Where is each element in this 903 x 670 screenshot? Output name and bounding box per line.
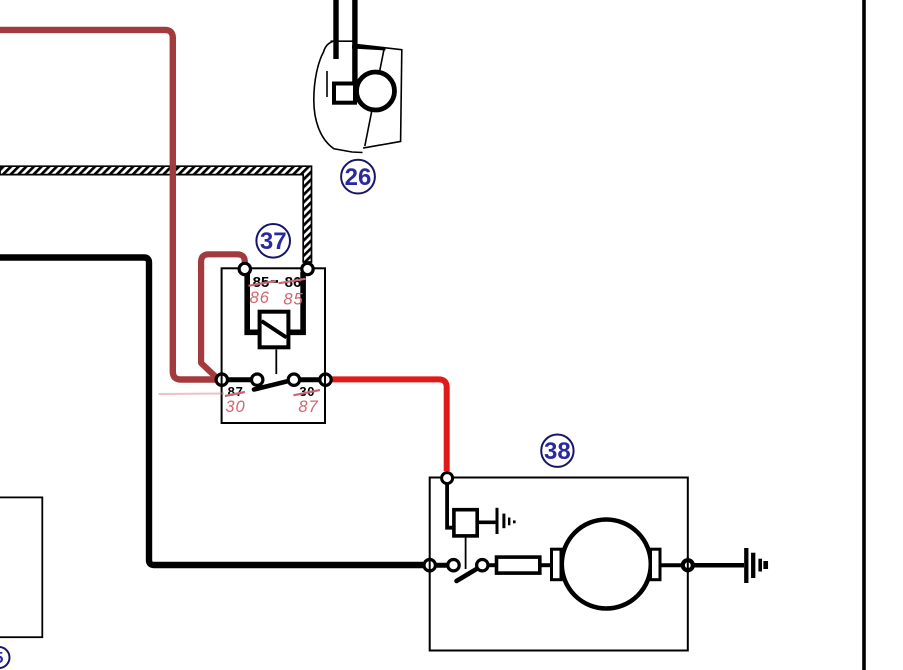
relay coil wire from terminal 86	[289, 272, 303, 332]
relay terminal 86	[302, 263, 313, 274]
solenoid square inside 38	[454, 510, 477, 536]
dash between pin labels 85 and 86	[271, 280, 278, 283]
38 box edge over right terminal	[687, 557, 689, 573]
wire: dark red (maroon) wire from top-left to relay terminal 87	[0, 30, 215, 380]
svg-text:87: 87	[298, 398, 318, 416]
label 38	[541, 435, 573, 467]
motor right brush	[651, 549, 661, 580]
wire: hatched (striped) wire from left edge to relay terminal 86	[0, 166, 312, 262]
label 26	[341, 160, 375, 194]
label 37	[256, 224, 290, 258]
svg-text:5: 5	[0, 650, 4, 667]
relay terminal 85	[239, 263, 250, 274]
relay terminal 87	[216, 374, 227, 385]
relay mid contact terminal	[288, 374, 299, 385]
relay wire terminal 87 to pivot	[222, 377, 257, 382]
svg-text:87: 87	[228, 384, 244, 399]
motor left brush	[552, 549, 562, 580]
right ground symbol	[746, 548, 765, 583]
svg-text:38: 38	[544, 438, 571, 465]
terminal on left edge of 38	[424, 560, 435, 571]
relay coil (box with diagonal)	[260, 312, 289, 348]
component 26 diaphragm (thick circle)	[357, 72, 395, 110]
wire from box edge terminal to right ground	[691, 563, 744, 568]
wire from 38 top terminal down to solenoid square	[447, 484, 453, 528]
motor armature (big circle)	[562, 520, 651, 609]
component 26 body (sensor/switch housing)	[314, 41, 402, 153]
svg-text:37: 37	[260, 228, 287, 255]
actuator line from solenoid square to switch	[465, 536, 467, 569]
resistor inside 38	[497, 557, 540, 573]
wire: maroon loop from relay terminal 85 down to terminal 87	[201, 254, 245, 379]
switch blade inside 38	[457, 566, 482, 581]
relay box edge over terminal 30	[324, 372, 326, 388]
wire from right brush to box edge terminal	[660, 563, 684, 567]
wire from solenoid square to inner ground	[477, 520, 495, 524]
wire: thick black supply wire from left edge down to motor assembly 38	[0, 258, 423, 566]
red strike over label 30	[293, 390, 320, 395]
relay contact pivot terminal	[252, 374, 263, 385]
38 box edge over left terminal	[429, 557, 431, 573]
wire from resistor to motor brush	[540, 563, 553, 567]
relay terminal 30	[320, 374, 331, 385]
switch pivot terminal inside 38	[448, 560, 459, 571]
motor assembly 38 box	[430, 478, 688, 651]
svg-text:30: 30	[225, 398, 245, 416]
relay contact blade	[254, 380, 293, 390]
red strike over label 85	[249, 281, 277, 286]
wire from switch to resistor	[482, 563, 497, 567]
svg-text:26: 26	[345, 164, 372, 191]
faint red strike extension left of 87	[159, 393, 225, 396]
component 26 terminal block (square)	[334, 84, 355, 103]
switch contact terminal inside 38	[477, 560, 488, 571]
red strike over label 87	[225, 392, 245, 396]
wire switch terminal link inside 38	[430, 563, 454, 568]
svg-text:85: 85	[283, 291, 303, 309]
red strike over label 86	[279, 279, 306, 284]
current track frame (right vertical line)	[862, 0, 866, 670]
relay 37 box	[222, 268, 325, 423]
relay wire mid contact to terminal 30	[294, 377, 326, 382]
terminal on right edge of 38	[683, 560, 693, 570]
svg-text:86: 86	[250, 289, 270, 307]
relay actuator line from coil to contact	[275, 350, 277, 375]
relay box edge over terminal 87	[221, 372, 223, 388]
left edge component box	[0, 497, 42, 637]
wire to component 26 (right lead)	[352, 0, 357, 84]
wire: bright red wire from relay terminal 30 to motor assembly 38	[331, 379, 447, 471]
relay coil wire from terminal 85	[247, 272, 259, 332]
terminal on top edge of 38	[442, 473, 453, 484]
wire to component 26 (left lead)	[333, 0, 338, 59]
partial label at bottom-left edge	[0, 647, 10, 668]
inner ground symbol	[497, 508, 514, 534]
